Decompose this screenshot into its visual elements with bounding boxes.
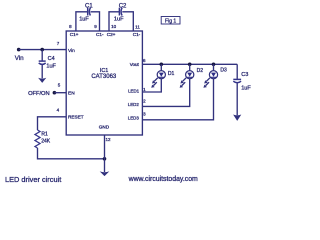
svg-text:11: 11: [135, 25, 140, 30]
wire D2 cathode to LED2: [142, 79, 189, 107]
wire pin 10 to C2: [109, 12, 119, 31]
node GND junction: [103, 157, 107, 161]
svg-text:RESET: RESET: [68, 115, 84, 120]
svg-text:C1+: C1+: [70, 32, 79, 37]
svg-text:LED1: LED1: [128, 89, 140, 94]
svg-text:C4: C4: [48, 56, 55, 62]
svg-text:OFF/ON: OFF/ON: [28, 91, 49, 97]
Fig 1 box: [161, 17, 180, 25]
svg-text:Vin: Vin: [68, 48, 75, 54]
wire pin 8 to C1: [76, 12, 87, 31]
svg-text:1uF: 1uF: [241, 85, 251, 91]
svg-text:Fig 1: Fig 1: [165, 18, 176, 24]
svg-text:LED3: LED3: [128, 115, 140, 120]
capacitor C3: [233, 79, 241, 82]
svg-text:Vin: Vin: [15, 55, 24, 62]
node D3 junction: [212, 63, 216, 67]
wire C4 branch: [41, 50, 43, 61]
svg-text:C2+: C2+: [107, 32, 116, 37]
svg-text:CAT3063: CAT3063: [91, 74, 117, 80]
ground below pin 12: [100, 171, 110, 176]
LED D3: [203, 64, 217, 88]
svg-text:24K: 24K: [41, 139, 51, 145]
svg-text:EN: EN: [68, 91, 75, 97]
wire below C4: [41, 65, 43, 79]
LED D1: [151, 64, 165, 88]
LED D2: [180, 64, 194, 88]
svg-text:1uF: 1uF: [79, 16, 89, 22]
wire D1 cathode to LED1: [142, 79, 161, 92]
wire below C3: [236, 83, 238, 115]
svg-text:1uF: 1uF: [114, 16, 124, 22]
node EN terminal: [53, 91, 57, 95]
svg-text:GND: GND: [99, 125, 110, 130]
svg-text:C2: C2: [119, 3, 127, 9]
IC U1: IC1 CAT3063 body: [66, 31, 142, 135]
capacitor C2: [119, 8, 122, 16]
wire D3 cathode to LED3: [142, 79, 213, 120]
capacitor C4: [39, 61, 46, 64]
svg-text:www.circuitstoday.com: www.circuitstoday.com: [128, 176, 198, 183]
svg-text:12: 12: [105, 137, 111, 142]
resistor R1: [35, 130, 40, 148]
wire RESET: [38, 117, 67, 130]
node D1 junction: [160, 63, 164, 67]
svg-text:D2: D2: [197, 68, 204, 74]
node C4 junction: [40, 48, 44, 52]
wire Vout rail: [142, 63, 237, 65]
svg-text:D3: D3: [220, 68, 227, 74]
node Vin terminal: [17, 48, 21, 52]
wire C3 branch: [236, 64, 238, 79]
svg-text:C1: C1: [85, 3, 93, 9]
ground below C3: [233, 115, 241, 121]
wire C2 to pin 11: [122, 12, 133, 31]
wire GND pin 12: [104, 135, 106, 172]
svg-text:C1-: C1-: [96, 32, 104, 37]
svg-text:LED driver circuit: LED driver circuit: [5, 175, 61, 184]
svg-text:C1-: C1-: [133, 32, 141, 37]
ground below C4: [38, 78, 46, 83]
svg-text:D1: D1: [168, 71, 175, 77]
svg-text:C3: C3: [241, 72, 248, 78]
svg-text:10: 10: [111, 24, 117, 29]
svg-text:Vout: Vout: [130, 62, 140, 67]
wire R1 bottom to ground node: [38, 148, 105, 159]
svg-text:1uF: 1uF: [46, 63, 56, 69]
svg-text:LED2: LED2: [128, 102, 140, 107]
capacitor C1: [88, 8, 91, 16]
wire Vin rail: [19, 49, 66, 51]
node D2 junction: [188, 63, 192, 67]
wire C1 to pin 9: [91, 12, 100, 31]
wire EN: [54, 92, 66, 94]
svg-text:R1: R1: [41, 131, 48, 137]
